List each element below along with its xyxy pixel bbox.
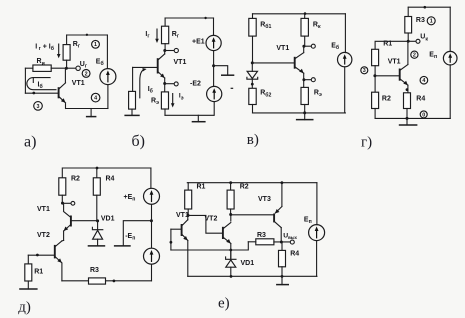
svg-text:в): в) — [247, 132, 259, 148]
svg-text:R3: R3 — [90, 267, 99, 274]
svg-text:R2: R2 — [71, 176, 80, 183]
terminal Ug — [76, 66, 80, 70]
wire: right rail top (b) — [213, 18, 215, 36]
wire: R3 bottom — [407, 33, 409, 41]
wire: to Ug terminal — [66, 67, 75, 69]
node number 4 — [91, 93, 100, 102]
wire: right rail bottom (d) — [151, 264, 153, 281]
ground left (b) — [131, 109, 133, 115]
wire: VT2 emitter down (d) — [61, 263, 63, 280]
wire: to Uk terminal — [408, 40, 416, 42]
transistor VT3 (e, pnp) — [274, 207, 282, 228]
wire: Rg bottom (b) — [164, 44, 166, 51]
current arrow Ig+Ib — [58, 44, 60, 55]
terminal at collector (b) — [174, 48, 178, 52]
wire: VT2 base wire (d) — [28, 254, 55, 256]
junction top rail (b) — [204, 17, 206, 19]
svg-text:а): а) — [24, 134, 36, 151]
transistor VT1 symbol (v) — [295, 53, 304, 74]
wire: top rail (d) — [63, 167, 151, 169]
wire: VT3 emitter up (e) — [281, 183, 283, 207]
wire: bottom rail (g) — [375, 117, 450, 119]
VD1 symbol (e) — [226, 250, 236, 276]
junction below diode (v) — [251, 83, 254, 86]
transistor VT1 symbol (b) — [158, 54, 165, 78]
wire: line A base-emitter return (e) — [171, 242, 248, 250]
wire: base wire (v) — [252, 62, 294, 64]
node number 2 — [82, 70, 90, 78]
transistor VT1 symbol (g) — [400, 65, 408, 86]
voltage source Ep (g) — [443, 51, 457, 65]
svg-text:е): е) — [218, 296, 230, 312]
node number 0 (g) — [420, 111, 427, 118]
node number 1 (g) — [427, 17, 435, 25]
wire: VT3 base wire (e) — [231, 214, 274, 216]
wire: VT1 emitter down (b) — [164, 78, 166, 92]
resistor Rb2 box — [249, 88, 256, 104]
wire: R1 top (e) — [187, 183, 189, 190]
resistor Rk box — [301, 18, 308, 36]
wire: VT1 collector up (d) — [63, 203, 65, 211]
resistor Rb1 box — [249, 18, 256, 36]
wire: Rb1 top — [252, 14, 254, 19]
wire: right rail top (e) — [316, 183, 318, 225]
wire: bottom rail right (d) — [106, 280, 152, 282]
svg-text:I: I — [35, 44, 37, 51]
ground bar of tap (b) — [221, 74, 234, 76]
wire: VT1 collector up — [64, 68, 66, 83]
svg-text:R2: R2 — [382, 96, 391, 103]
svg-text:VT1: VT1 — [388, 59, 401, 66]
ground bottom (b) — [197, 115, 199, 121]
svg-text:R1: R1 — [197, 183, 206, 190]
wire: top rail of circuit a — [67, 34, 108, 36]
wire: VT1 collector up (e) — [187, 215, 189, 219]
svg-text:VT2: VT2 — [37, 232, 50, 239]
wire: top rail (g) — [408, 6, 450, 8]
ground (g) — [406, 118, 408, 125]
wire: Re bottom (b) — [164, 109, 166, 115]
junction top rail (g) — [424, 6, 427, 9]
wire: right rail bottom (g) — [449, 65, 451, 119]
wire: bottom rail (b) — [165, 114, 214, 116]
wire: R2 bottom (e) — [230, 209, 232, 215]
svg-text:+E1: +E1 — [192, 38, 205, 45]
junction bottom wire (d) — [113, 280, 116, 283]
resistor R3 box (d) — [89, 278, 106, 284]
resistor R3 box (g) — [405, 17, 412, 34]
wire: VT1 base-left vertical (e) — [170, 229, 172, 250]
wire: Rb1 bottom — [252, 36, 254, 63]
svg-text:б): б) — [132, 133, 145, 150]
svg-text:VT1: VT1 — [37, 206, 50, 213]
wire: -Ep tap (d) — [123, 221, 151, 246]
node: R2/VT3 base (e) — [229, 213, 232, 216]
transistor VT1 symbol (a) — [59, 83, 66, 103]
svg-text:VD1: VD1 — [241, 260, 255, 267]
junction bottom rail VD1 (e) — [230, 275, 233, 278]
wire: Rb2 bottom — [252, 105, 254, 113]
node: midpoint of sources (d) — [150, 219, 153, 222]
terminal emitter (v) — [311, 78, 315, 82]
wire: R4 bottom (g) — [406, 109, 408, 119]
node: emitter junction (b) — [163, 82, 166, 85]
node: Rg bottom junction — [65, 67, 68, 70]
wire: Rg top (b) — [164, 18, 166, 26]
wire: left vertical (a) — [24, 68, 26, 93]
current arrow Ib curved (b) — [140, 69, 145, 98]
ground bar of -Ep tap (d) — [114, 245, 131, 247]
wire: VT1 emitter down (v) — [303, 73, 305, 87]
resistor Re box (v) — [301, 87, 308, 104]
terminal Uk — [416, 39, 420, 43]
svg-text:2: 2 — [413, 53, 416, 59]
voltage source +E1 (b) — [206, 35, 221, 50]
wire: to terminal (d) — [63, 202, 71, 204]
wire: to collector terminal (b) — [165, 50, 174, 52]
wire: bottom rail (a) — [66, 108, 108, 110]
junction top rail (d) — [96, 167, 99, 170]
node: base junction (g) — [373, 74, 376, 77]
wire: R2 bottom (g) — [374, 109, 376, 119]
wire: right rail top (g) — [449, 7, 451, 51]
wire: VT2 collector up (e) — [230, 215, 232, 222]
svg-text:0: 0 — [422, 112, 425, 118]
transistor VT1 symbol (d) — [64, 212, 71, 232]
transistor VT1 symbol (e) — [182, 220, 188, 241]
node number 4 (g) — [420, 76, 428, 84]
wire: R2 top (d) — [61, 168, 63, 178]
wire: bottom rail (e) — [188, 275, 317, 277]
wire: right rail bottom (e) — [316, 241, 318, 277]
wire: between sources (d) — [151, 204, 153, 248]
resistor R1 box (g) — [372, 49, 379, 65]
ground bar under VD1 (d) — [88, 245, 106, 247]
wire: R2 bottom (d) — [61, 195, 63, 203]
wire: right rail bottom (b) — [213, 102, 215, 116]
wire: to emitter terminal (v) — [304, 79, 311, 81]
current loop Ib (a) — [27, 78, 57, 90]
resistor R4 box (g) — [404, 93, 411, 109]
resistor R2 box (g) — [372, 92, 379, 108]
voltage source -Ep lower (d) — [144, 248, 160, 264]
junction on left vertical (e) — [170, 241, 173, 244]
terminal Uvyh (e) — [290, 240, 294, 244]
wire: Rg top — [66, 35, 68, 45]
svg-text:R1: R1 — [383, 41, 392, 48]
node: collector terminal junction (v) — [302, 45, 305, 48]
terminal at VT1 collector (d) — [71, 201, 75, 205]
node number 3 (g) — [361, 67, 368, 74]
terminal collector (v) — [311, 44, 315, 48]
diode VD (v) — [251, 63, 253, 71]
svg-text:R3: R3 — [416, 17, 425, 24]
node: VT1 collector junction (d) — [61, 202, 64, 205]
svg-text:R3: R3 — [257, 232, 266, 239]
svg-text:R2: R2 — [240, 183, 249, 190]
current source symbol Eb — [100, 69, 116, 85]
svg-text:R1: R1 — [34, 268, 43, 275]
wire: right rail top (v) — [344, 14, 346, 53]
wire: Rg bottom — [66, 60, 68, 68]
ground (v) — [304, 113, 306, 120]
resistor R1 box (e) — [185, 190, 192, 209]
wire: VT1 base wire to VD1 (d) — [71, 220, 98, 222]
wire: Ri left — [25, 67, 33, 69]
wire: base wire (a) — [25, 92, 58, 94]
resistor Re box (b) — [161, 92, 168, 109]
wire: right rail bottom (a) — [107, 85, 109, 109]
resistor R3 box (e) — [256, 239, 274, 245]
wire: VT1 emitter down (e) — [187, 241, 189, 277]
svg-text:R4: R4 — [290, 251, 299, 258]
wire: R2 top (g) — [374, 76, 376, 92]
wire: R4 bottom (d) — [96, 195, 98, 221]
resistor R4 box (e) — [279, 250, 286, 266]
svg-text:д): д) — [18, 300, 31, 316]
svg-text:VD1: VD1 — [101, 216, 115, 223]
junction on base wire (d) — [36, 254, 39, 257]
voltage source Eb (v) — [338, 52, 352, 66]
node number 2 (g) — [411, 51, 418, 58]
wire: bottom rail (v) — [253, 112, 346, 114]
resistor Ri box — [33, 65, 51, 71]
wire: node to R1 branch (g) — [375, 41, 408, 49]
wire: Rk bottom — [304, 36, 306, 46]
left resistor box (b) — [129, 91, 136, 109]
wire: R1 bottom — [374, 66, 376, 76]
svg-text:г): г) — [361, 134, 372, 150]
resistor R2 box (e) — [227, 190, 234, 209]
transistor VT2 symbol (d) — [55, 241, 62, 263]
polarity dash (v) — [231, 87, 234, 89]
svg-text:VT1: VT1 — [276, 45, 289, 52]
svg-text:R4: R4 — [106, 176, 115, 183]
wire: VT2 emitter down (e) — [230, 244, 232, 260]
wire: R1 bottom (e) — [187, 209, 189, 215]
wire: VT1 emitter down (g) — [407, 85, 409, 93]
node number 3 — [34, 102, 43, 111]
voltage source -E2 (b) — [207, 86, 222, 101]
node: collector junction (b) — [163, 49, 166, 52]
wire: base wire (g) — [375, 75, 400, 77]
terminal at emitter (b) — [174, 82, 178, 86]
junction at emitter (g) — [406, 88, 409, 91]
svg-text:4: 4 — [422, 78, 425, 84]
current arrow Ig (b) — [156, 29, 158, 40]
node: emitter terminal junction (v) — [302, 78, 305, 81]
svg-text:VT1: VT1 — [174, 59, 187, 66]
transistor VT2 symbol (e) — [223, 223, 231, 244]
junction top rail R2 (e) — [229, 181, 232, 184]
wire: VT3 collector down (e) — [280, 228, 282, 242]
junction bottom rail (v) — [303, 111, 306, 114]
wire: R2 top (e) — [230, 183, 232, 190]
wire: VT1 collector up (g) — [407, 41, 409, 64]
svg-text:4: 4 — [94, 96, 97, 102]
svg-text:1: 1 — [430, 19, 433, 25]
resistor Rg box (b) — [162, 26, 169, 44]
wire: R3 right wire (e) — [274, 241, 290, 243]
voltage source Ep (e) — [309, 225, 325, 241]
wire: between sources (b) — [213, 51, 215, 87]
node: Uvyh junction (e) — [280, 241, 283, 244]
resistor Rg box — [63, 45, 70, 61]
resistor R1 box (d) — [25, 264, 32, 281]
junction bottom rail (g) — [406, 117, 409, 120]
ground (e) — [281, 276, 283, 284]
svg-text:2: 2 — [85, 71, 88, 77]
svg-text:-E2: -E2 — [190, 81, 201, 88]
VD1 symbol (d) — [92, 221, 102, 245]
wire: R3 top — [407, 7, 409, 16]
wire: ground tap (b) — [214, 66, 228, 75]
current arrow Ie (b) — [172, 93, 174, 104]
wire: VT2 collector up (d) — [62, 239, 64, 242]
wire: bottom rail left (d) — [62, 280, 89, 282]
svg-text:3: 3 — [37, 104, 40, 110]
wire: R4 top (e) — [281, 242, 283, 250]
svg-text:VT2: VT2 — [205, 216, 218, 223]
junction on top rail — [86, 34, 88, 36]
svg-text:VT1: VT1 — [72, 80, 85, 87]
wire: Re bottom (v) — [304, 105, 306, 113]
wire: VT1 base wire (e) — [171, 228, 182, 230]
junction bottom rail R4 (e) — [281, 275, 284, 278]
wire: R1 top (d) — [27, 255, 29, 264]
svg-text:1: 1 — [94, 42, 97, 48]
junction on base wire — [32, 92, 35, 95]
node: collector junction (g) — [407, 40, 410, 43]
junction top rail (v) — [304, 12, 307, 15]
wire: R3 left wire (e) — [248, 241, 256, 243]
wire: Rk top — [304, 14, 306, 19]
node: midpoint of sources (b) — [212, 64, 215, 67]
wire: left branch vertical (b) — [132, 67, 134, 91]
wire: top rail (v) — [253, 13, 346, 15]
wire: VT1 emitter down (d) — [63, 231, 65, 240]
voltage source +Ep (d) — [144, 188, 160, 204]
wire: VT1 base wire (b) — [133, 66, 158, 68]
junction line A / VD1 (e) — [229, 249, 232, 252]
resistor R2 box (d) — [59, 178, 66, 195]
svg-text:R4: R4 — [416, 96, 425, 103]
node number 1 — [92, 40, 100, 48]
wire: R1 node to VT2 base path (e) — [188, 215, 222, 233]
junction top rail VT3 (e) — [281, 181, 284, 184]
wire: top rail (b) — [165, 17, 213, 19]
wire: VT1 collector link (b) — [164, 51, 166, 55]
ground under R1 (d) — [27, 281, 29, 289]
node: R4/VD1/base junction (d) — [96, 219, 99, 222]
wire: top rail (e) — [187, 182, 317, 184]
wire: right rail bottom (v) — [344, 67, 346, 113]
wire: R4 top (d) — [96, 168, 98, 178]
wire: R4 bottom (e) — [281, 267, 283, 277]
wire: to emitter terminal (b) — [165, 83, 174, 85]
wire: to collector terminal (v) — [304, 45, 311, 47]
ground (a) — [90, 109, 92, 117]
node: R1/VT1 collector (e) — [187, 214, 190, 217]
node: base divider (v) — [251, 61, 254, 64]
svg-text:VT3: VT3 — [258, 196, 271, 203]
wire: right rail top (a) — [106, 35, 108, 69]
wire: Ri right to node — [51, 67, 66, 69]
wire: right rail top (d) — [150, 168, 152, 188]
resistor R4 box (d) — [93, 178, 100, 195]
wire: VT1 emitter down — [65, 104, 67, 109]
wire: VT1 collector link (v) — [303, 46, 305, 52]
svg-text:3: 3 — [363, 68, 366, 74]
